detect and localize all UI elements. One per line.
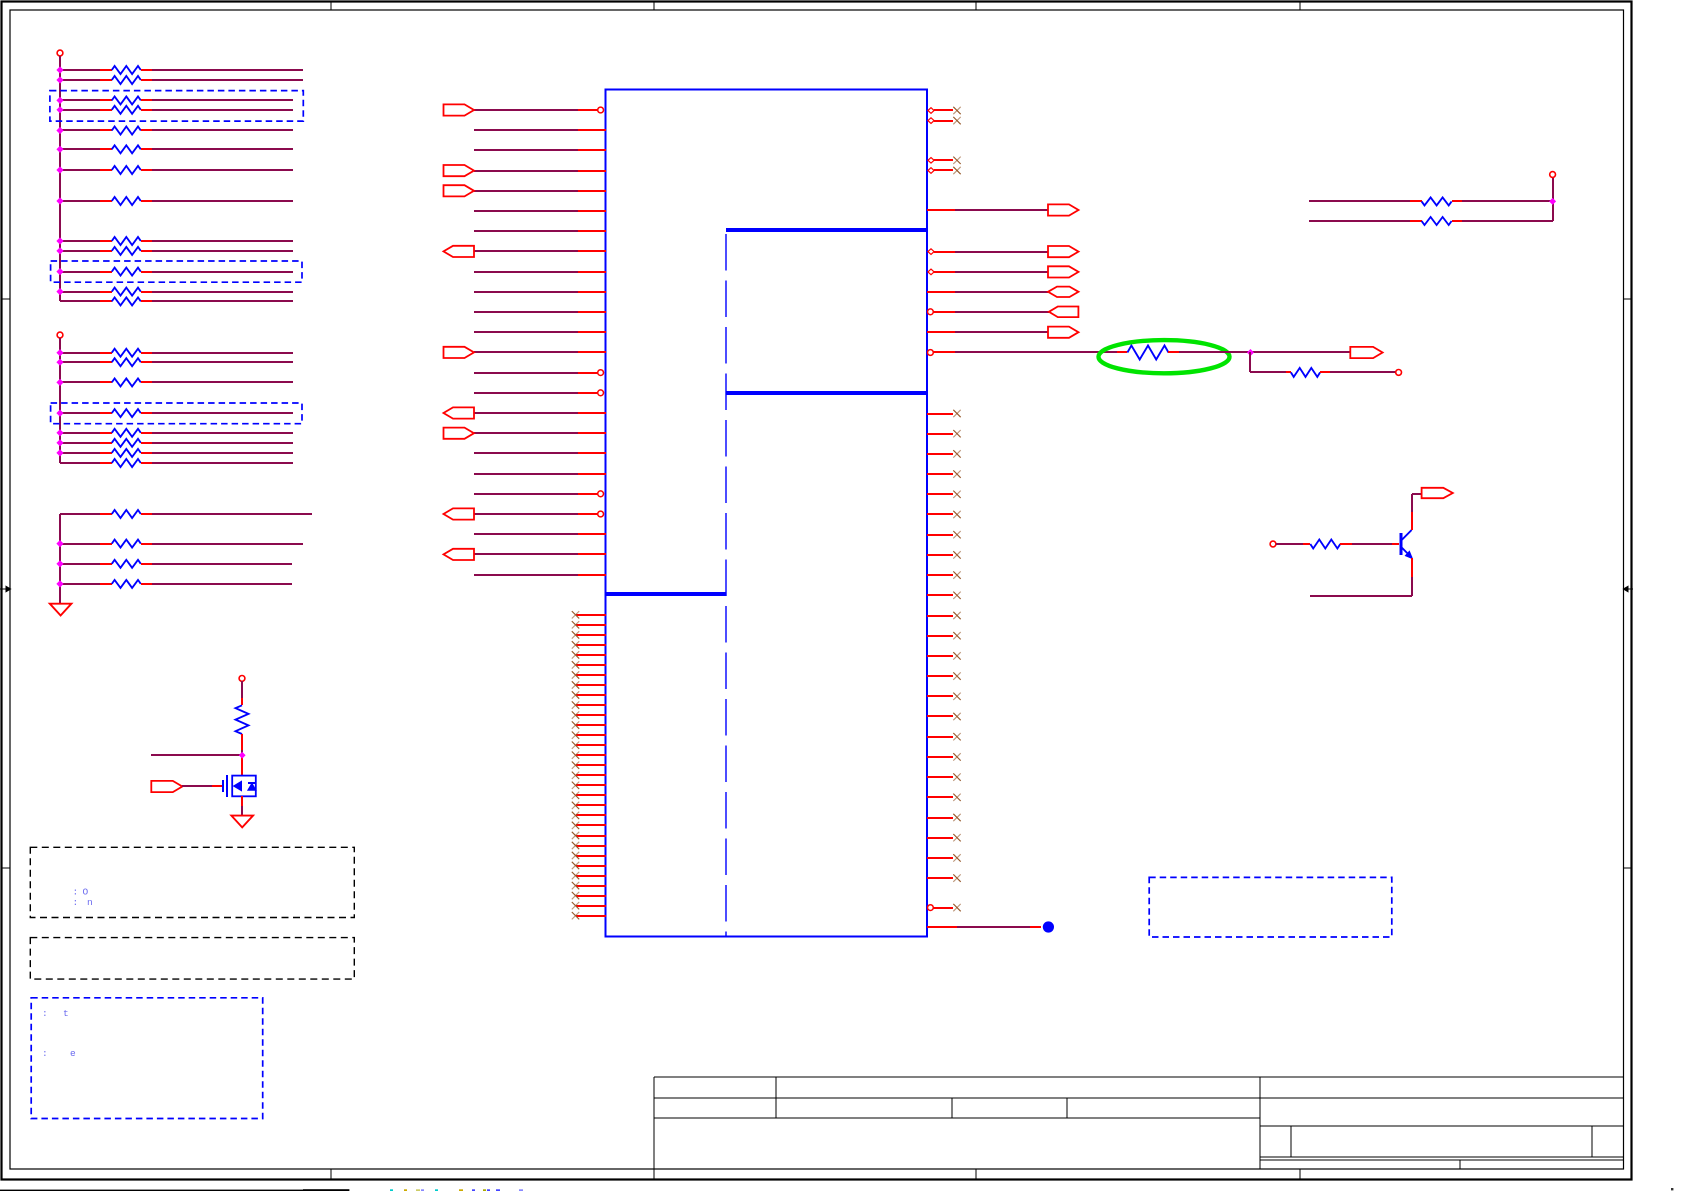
wire IC left pin row 24: [474, 574, 606, 576]
no-connect pin left 20: [572, 802, 606, 809]
ground M1: [231, 816, 253, 828]
no-connect pin left 26: [572, 862, 606, 869]
no-connect pin left 23: [572, 832, 606, 839]
wire pullup top: [241, 681, 243, 705]
no-connect pin right bubble: [928, 904, 961, 911]
svg-text::: :: [42, 1008, 48, 1019]
no-connect pin left 17: [572, 772, 606, 779]
dashed selection box 1: [50, 91, 303, 122]
bus wire bank2: [59, 338, 61, 463]
no-connect pin right 23: [927, 854, 961, 861]
svg-text:O: O: [83, 887, 89, 898]
no-connect pin right 2: [927, 430, 961, 437]
resistor R201: [60, 349, 293, 357]
wire IC left pin row 14: [474, 370, 603, 376]
no-connect pin right 22: [927, 834, 961, 841]
no-connect pin left 4: [572, 641, 606, 648]
no-connect pin left 6: [572, 661, 606, 668]
junction dots bank3: [57, 541, 63, 587]
wire collector: [1412, 494, 1422, 530]
dashed selection box 3: [51, 403, 302, 424]
wire IC left pin row 4: [444, 165, 607, 176]
no-connect pin right 13: [927, 652, 961, 659]
resistor R104: [60, 106, 293, 114]
wire output row 271.9: [928, 269, 1048, 275]
resistor R42: [1410, 197, 1462, 205]
terminal circle row 372.4: [1396, 370, 1402, 376]
wire IC left pin row 1: [444, 104, 604, 115]
resistor R202: [60, 358, 293, 366]
no-connect pin left 15: [572, 752, 606, 759]
no-connect pin right 4: [927, 470, 961, 477]
no-connect pin right 9: [927, 571, 961, 578]
no-connect pin left 24: [572, 842, 606, 849]
no-connect pin right 17: [927, 733, 961, 740]
left border alignment arrow: [0, 586, 11, 591]
resistor R207: [60, 449, 293, 457]
wire pullup bottom: [241, 734, 243, 755]
wire output row 291.8: [927, 291, 1048, 293]
no-connect pin left 13: [572, 732, 606, 739]
wire emitter: [1310, 558, 1412, 596]
resistor R107: [60, 166, 293, 174]
wire base: [1276, 543, 1303, 545]
resistor R206: [60, 439, 293, 447]
wire output row 332.2: [927, 331, 1048, 333]
wire output row 251.6: [928, 249, 1048, 255]
resistor R203: [60, 378, 293, 386]
wire IC left pin row 11: [474, 311, 606, 313]
IC U1 inner dashed divider: [725, 234, 727, 936]
ground bank3: [50, 604, 72, 616]
annotation box B: [30, 938, 354, 980]
no-connect pin right 19: [927, 773, 961, 780]
no-connect pin left 25: [572, 852, 606, 859]
resistor R302: [60, 540, 303, 548]
wire IC left pin row 6: [474, 210, 606, 212]
port arrow left row 311.8: [1049, 307, 1079, 318]
no-connect pin left 11: [572, 711, 606, 718]
junction dots bank2: [57, 350, 63, 456]
wire IC left pin row 10: [474, 291, 606, 293]
no-connect pin left 16: [572, 762, 606, 769]
no-connect pin right top 1: [928, 107, 961, 114]
node junction 352.5: [1248, 350, 1254, 356]
port arrow collector: [1422, 488, 1453, 498]
resistor R101: [60, 66, 303, 74]
no-connect pin left 10: [572, 701, 606, 708]
no-connect pin left 9: [572, 691, 606, 698]
svg-text:n: n: [87, 897, 93, 908]
resistor R303: [60, 560, 292, 568]
wire output row 210: [927, 209, 1048, 211]
no-connect pin right top 4: [928, 167, 961, 174]
wire IC left pin row 2: [474, 129, 606, 131]
wire IC left pin row 17: [444, 428, 607, 439]
resistor R106: [60, 145, 293, 153]
resistor R205: [60, 429, 293, 437]
no-connect pin left 12: [572, 721, 606, 728]
wire IC left pin row 3: [474, 149, 606, 151]
no-connect pin left 2: [572, 621, 606, 628]
wire source: [241, 796, 243, 816]
no-connect pin left 30: [572, 902, 606, 909]
node junction M1: [240, 753, 245, 758]
svg-text:t: t: [63, 1008, 69, 1019]
wire branch down: [1250, 352, 1286, 372]
resistor R41: [1286, 368, 1330, 377]
node blue dot: [1043, 921, 1054, 932]
resistor R109: [60, 237, 293, 245]
green highlight ellipse: [1099, 340, 1230, 373]
wire top-right vertical: [1552, 177, 1554, 221]
resistor R208: [60, 459, 293, 467]
terminal circle Q1 base: [1270, 541, 1276, 547]
wire IC left pin row 9: [474, 271, 606, 273]
resistor R45 vertical: [236, 705, 249, 734]
wire IC left pin row 13: [444, 347, 607, 358]
power terminal P1: [57, 50, 63, 56]
resistor R105: [60, 127, 293, 135]
svg-text::: :: [73, 887, 79, 898]
transistor Q1: [1401, 530, 1413, 559]
no-connect pin right 5: [927, 491, 961, 498]
wire IC left pin row 19: [474, 473, 606, 475]
wire horizontal tap: [151, 754, 242, 756]
no-connect pin left 22: [572, 822, 606, 829]
resistor R108: [60, 197, 293, 205]
annotation box C: [31, 998, 263, 1119]
wire IC left pin row 16: [444, 407, 607, 418]
text fragment box C: [42, 1008, 76, 1059]
dashed selection box 2: [51, 261, 302, 282]
no-connect pin left 14: [572, 742, 606, 749]
annotation box D: [1149, 877, 1392, 937]
wire row 352.5 from IC: [928, 350, 1118, 356]
port arrow row 251.6: [1048, 246, 1079, 257]
junction dots bank1: [57, 67, 63, 294]
no-connect pin left 31: [572, 912, 606, 919]
no-connect pin left 7: [572, 671, 606, 678]
resistor R204: [60, 409, 293, 417]
resistor R40 (highlighted): [1117, 346, 1179, 360]
IC U1 inner section line 2: [726, 391, 927, 395]
no-connect pin right 12: [927, 632, 961, 639]
wire top-right row B cont: [1462, 220, 1553, 222]
no-connect pin right top 2: [928, 117, 961, 124]
resistor R44: [1303, 540, 1352, 549]
wire IC left pin row 20: [474, 491, 603, 497]
no-connect pin right 3: [927, 450, 961, 457]
wire gate: [182, 785, 222, 787]
bottom strip remnants: [0, 1188, 1673, 1191]
IC U1 body: [606, 90, 928, 937]
wire output row 311.8: [928, 309, 1050, 315]
resistor R110: [60, 247, 293, 255]
no-connect pin right 1: [927, 410, 961, 417]
bus wire bank3: [59, 514, 61, 604]
wire IC left pin row 21: [444, 508, 604, 519]
annotation box A: [30, 847, 354, 917]
no-connect pin right 18: [927, 753, 961, 760]
transistor M1 (MOSFET): [223, 775, 256, 797]
no-connect pin left 8: [572, 681, 606, 688]
no-connect pin right 21: [927, 814, 961, 821]
port arrow row 210: [1048, 204, 1079, 215]
power terminal P2: [57, 332, 63, 338]
terminal circle M1 pullup: [239, 676, 245, 682]
node junction top-right: [1550, 199, 1556, 205]
no-connect pin right 15: [927, 693, 961, 700]
wire top-right row B: [1309, 220, 1410, 222]
terminal circle top-right: [1550, 172, 1556, 178]
no-connect pin right 24: [927, 874, 961, 881]
no-connect pin left 29: [572, 892, 606, 899]
resistor R111: [60, 268, 293, 276]
svg-text::: :: [42, 1048, 48, 1059]
resistor R102: [60, 76, 303, 84]
wire IC left pin row 15: [474, 390, 603, 396]
port arrow row 352.5: [1350, 347, 1382, 358]
port arrow row 332.2: [1048, 327, 1079, 338]
wire to terminal: [1330, 371, 1396, 373]
wire IC left pin row 5: [444, 185, 607, 196]
wire IC left pin row 8: [444, 246, 607, 257]
right border alignment arrow: [1623, 586, 1633, 591]
wire base cont: [1352, 543, 1399, 545]
resistor R43: [1410, 217, 1462, 225]
svg-text::: :: [73, 897, 79, 908]
wire IC left pin row 7: [474, 230, 606, 232]
no-connect pin right 20: [927, 794, 961, 801]
resistor R103: [60, 96, 293, 104]
port arrow M1 gate: [151, 781, 182, 792]
no-connect pin right 10: [927, 592, 961, 599]
no-connect pin right 6: [927, 511, 961, 518]
no-connect pin left 27: [572, 872, 606, 879]
IC U1 inner section line 1: [726, 228, 927, 232]
port arrow row 271.9: [1048, 266, 1079, 277]
no-connect pin right top 3: [928, 157, 961, 164]
wire IC left pin row 18: [474, 452, 606, 454]
no-connect pin left 19: [572, 792, 606, 799]
wire row 352.5 to junction: [1179, 351, 1350, 353]
wire drain: [241, 755, 243, 776]
no-connect pin left 21: [572, 812, 606, 819]
IC U1 inner section line 3: [606, 592, 726, 596]
bus wire bank1: [59, 56, 61, 301]
no-connect pin left 18: [572, 782, 606, 789]
resistor R113: [60, 297, 293, 305]
port hexagon row 291.8: [1048, 287, 1079, 297]
no-connect pin left 28: [572, 882, 606, 889]
no-connect pin right 16: [927, 713, 961, 720]
no-connect pin left 3: [572, 631, 606, 638]
svg-text:e: e: [70, 1048, 76, 1059]
wire IC left pin row 22: [474, 533, 606, 535]
wire top-right row A: [1309, 200, 1410, 202]
no-connect pin right 8: [927, 551, 961, 558]
no-connect pin left 1: [572, 611, 606, 618]
title block: [654, 1077, 1624, 1169]
no-connect pin right 14: [927, 672, 961, 679]
wire IC left pin row 23: [444, 549, 607, 560]
text fragment box A: [73, 887, 93, 909]
resistor R112: [60, 288, 293, 296]
no-connect pin left 5: [572, 651, 606, 658]
no-connect pin right 11: [927, 612, 961, 619]
no-connect pin right 7: [927, 531, 961, 538]
wire bottom right row 927: [927, 926, 1041, 928]
wire IC left pin row 12: [474, 331, 606, 333]
resistor R301: [60, 510, 312, 518]
wire top-right row A cont: [1462, 200, 1553, 202]
resistor R304: [60, 580, 292, 588]
